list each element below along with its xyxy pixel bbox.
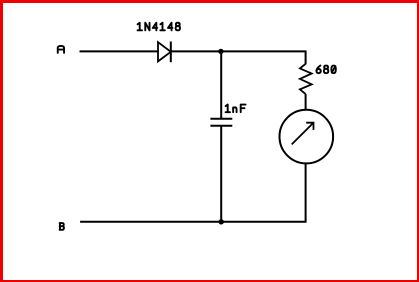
node B bbox=[60, 223, 64, 230]
wire from A to diode anode bbox=[80, 50, 159, 52]
label 1nF bbox=[226, 105, 246, 113]
wire capacitor to bottom junction bbox=[220, 127, 222, 222]
junction top node bbox=[218, 49, 223, 54]
wire from diode cathode to top-right corner bbox=[171, 51, 306, 64]
diode 1N4148 bbox=[158, 42, 171, 63]
node A bbox=[58, 46, 64, 53]
label 680 bbox=[316, 66, 335, 74]
junction bottom node bbox=[219, 219, 224, 224]
label 1N4148 bbox=[138, 23, 180, 31]
meter M (analog meter symbol) bbox=[280, 110, 334, 164]
wire meter to bottom-right corner and bottom wire to B bbox=[80, 163, 306, 222]
resistor R 680 bbox=[300, 64, 312, 94]
capacitor C 1nF bbox=[210, 119, 232, 126]
wire resistor to meter bbox=[305, 94, 307, 110]
wire junction down to capacitor bbox=[220, 51, 222, 118]
